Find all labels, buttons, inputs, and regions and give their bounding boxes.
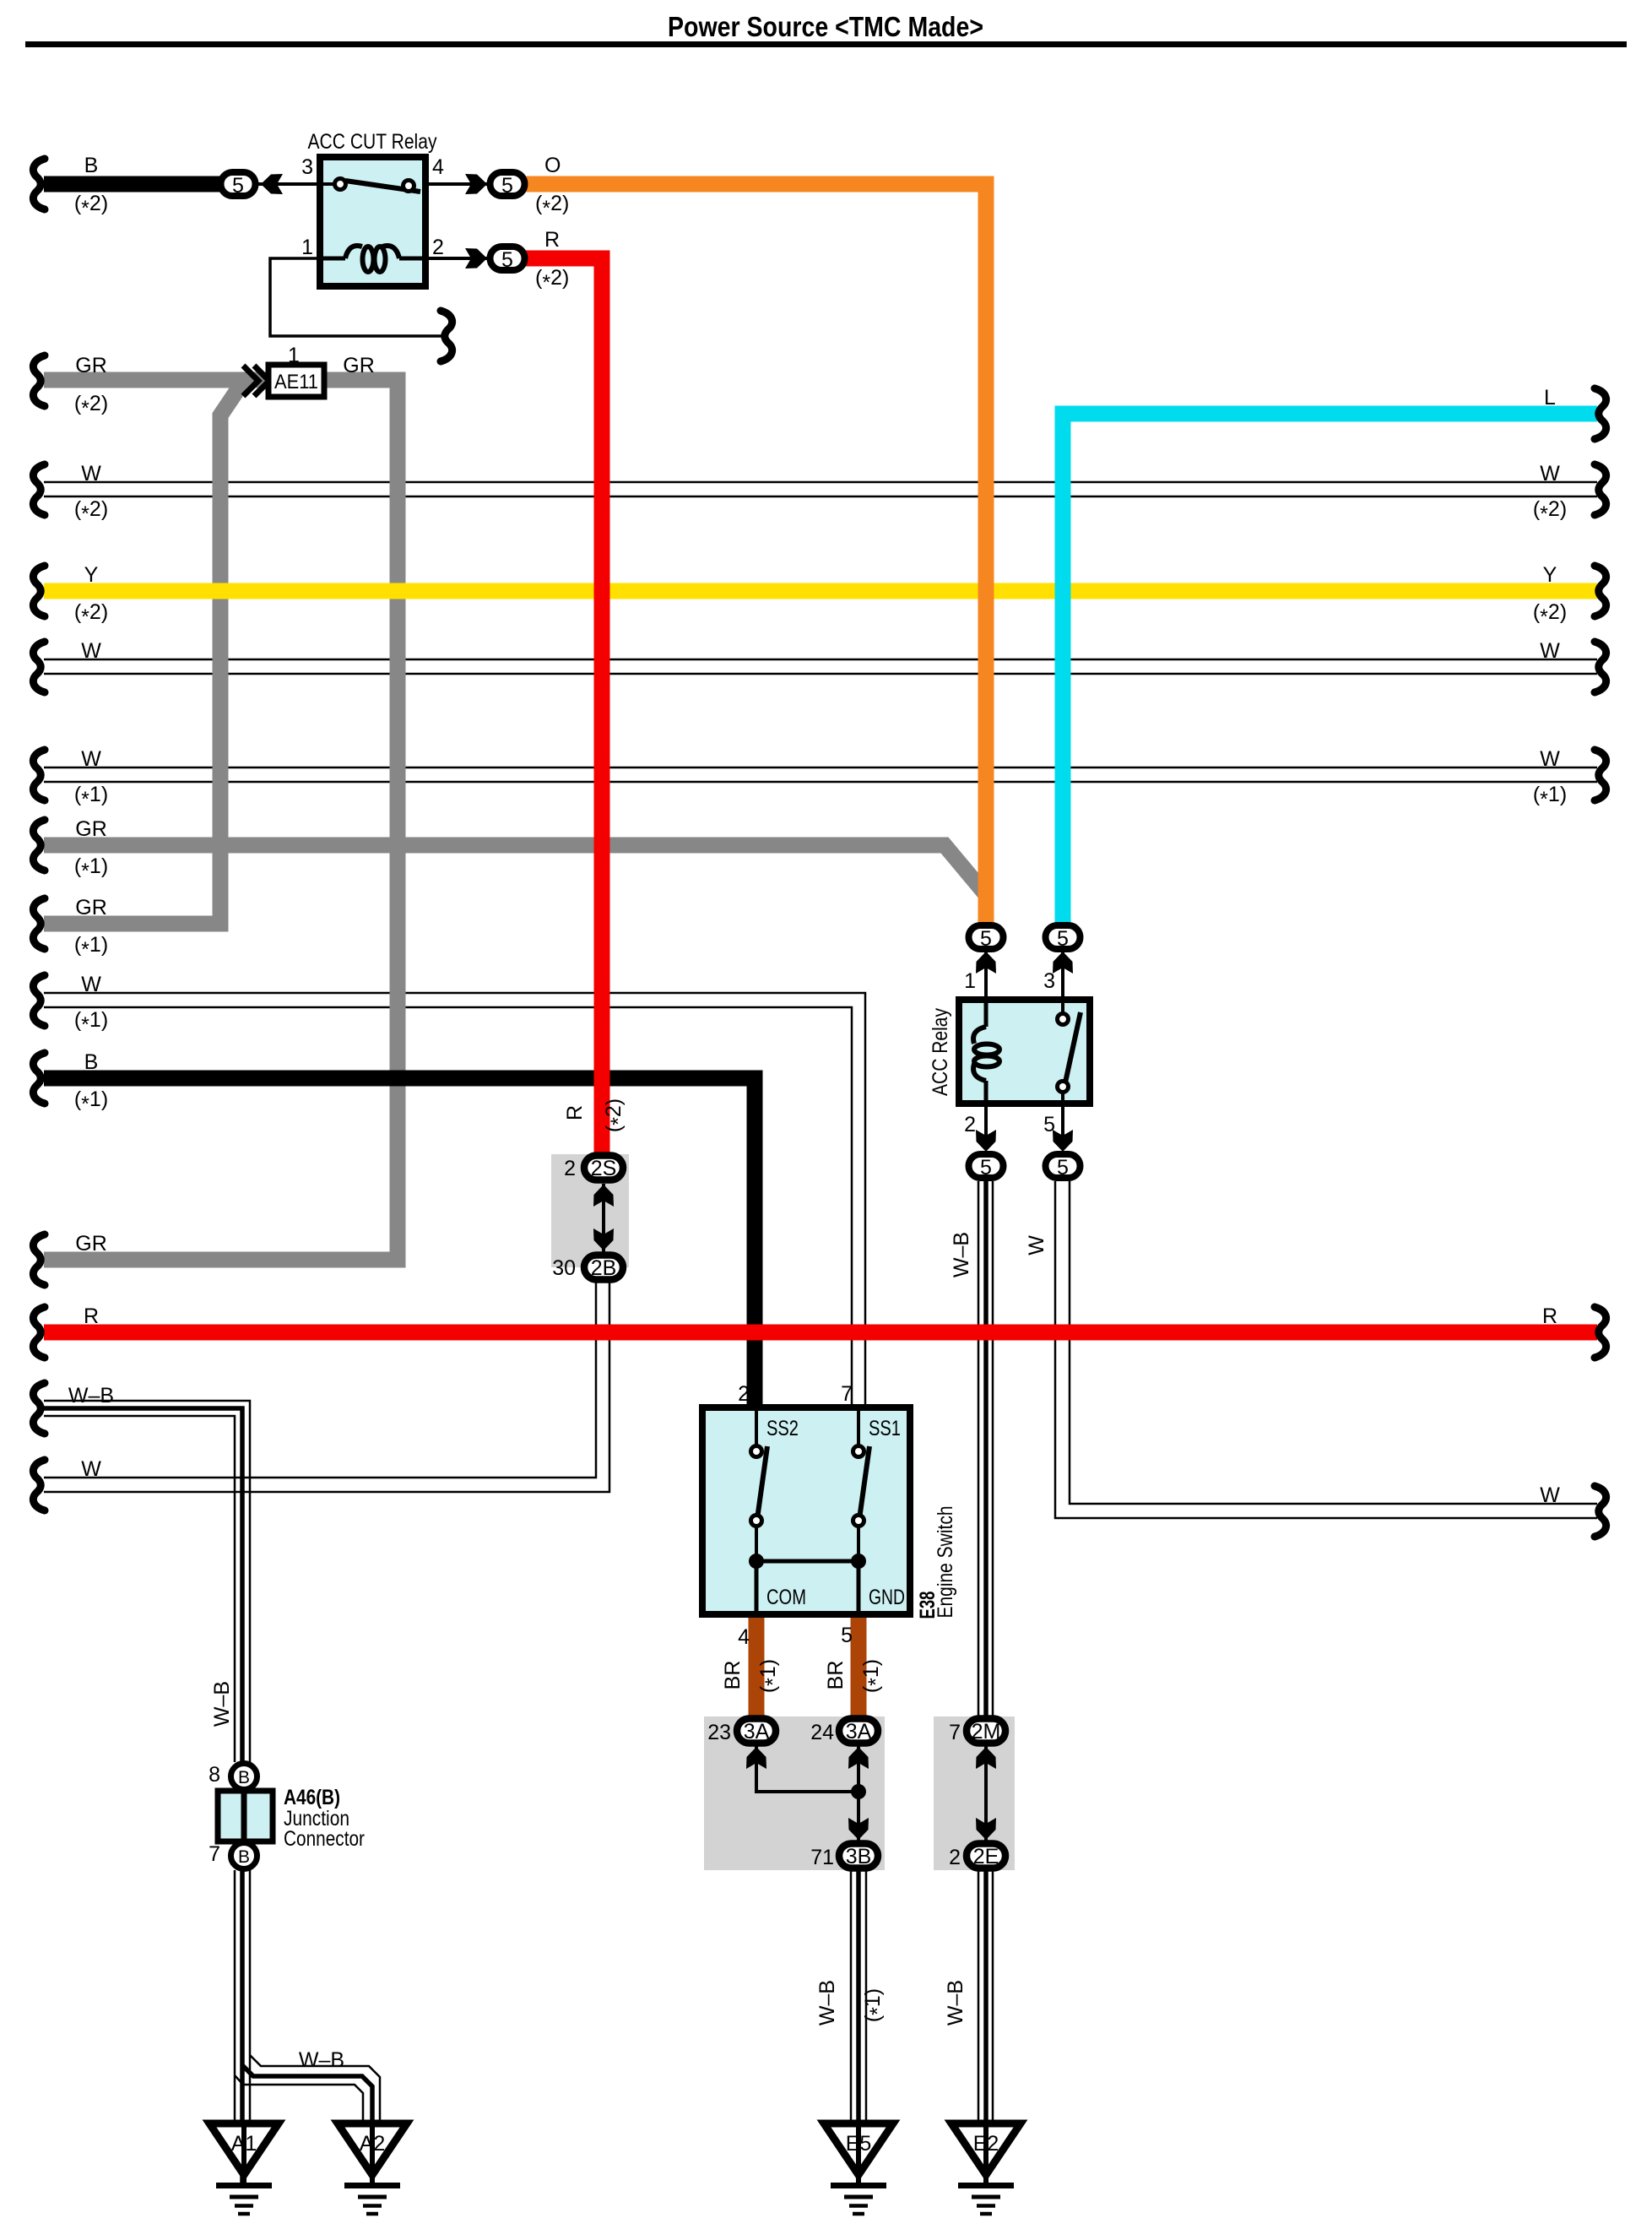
svg-text:W: W bbox=[81, 1457, 101, 1481]
svg-text:4: 4 bbox=[432, 155, 444, 179]
svg-text:L: L bbox=[1544, 386, 1556, 409]
svg-text:B: B bbox=[238, 1847, 250, 1867]
svg-text:5: 5 bbox=[232, 174, 244, 198]
svg-text:W–B: W–B bbox=[299, 2048, 344, 2072]
svg-text:GR: GR bbox=[75, 896, 107, 919]
svg-text:5: 5 bbox=[980, 927, 992, 951]
svg-text:GR: GR bbox=[75, 354, 107, 377]
svg-text:1: 1 bbox=[288, 344, 300, 367]
svg-text:3A: 3A bbox=[846, 1720, 872, 1744]
svg-text:W: W bbox=[1540, 639, 1560, 663]
svg-text:W: W bbox=[1540, 1483, 1560, 1507]
svg-text:W–B: W–B bbox=[815, 1980, 839, 2026]
svg-text:E5: E5 bbox=[846, 2132, 872, 2156]
svg-text:2E: 2E bbox=[973, 1845, 999, 1868]
svg-text:ACC Relay: ACC Relay bbox=[929, 1008, 952, 1096]
svg-text:71: 71 bbox=[810, 1846, 834, 1869]
svg-text:Y: Y bbox=[84, 563, 99, 587]
svg-text:4: 4 bbox=[738, 1625, 750, 1649]
svg-text:E2: E2 bbox=[973, 2132, 999, 2156]
svg-text:COM: COM bbox=[766, 1586, 806, 1609]
svg-text:R: R bbox=[84, 1304, 99, 1328]
svg-text:W: W bbox=[81, 747, 101, 771]
svg-text:2: 2 bbox=[432, 236, 444, 259]
svg-text:2: 2 bbox=[564, 1157, 576, 1180]
svg-text:B: B bbox=[84, 154, 99, 177]
svg-text:W: W bbox=[81, 973, 101, 996]
svg-text:Engine Switch: Engine Switch bbox=[934, 1506, 957, 1619]
svg-text:2: 2 bbox=[949, 1846, 961, 1869]
svg-text:1: 1 bbox=[301, 236, 313, 259]
svg-text:2S: 2S bbox=[591, 1157, 617, 1180]
svg-text:W: W bbox=[81, 462, 101, 485]
svg-text:5: 5 bbox=[1043, 1113, 1055, 1136]
svg-text:3: 3 bbox=[301, 155, 313, 179]
svg-text:3B: 3B bbox=[846, 1845, 872, 1868]
svg-text:5: 5 bbox=[501, 248, 513, 272]
svg-text:Power Source <TMC Made>: Power Source <TMC Made> bbox=[668, 11, 983, 42]
svg-text:3A: 3A bbox=[744, 1720, 770, 1744]
svg-text:8: 8 bbox=[209, 1763, 220, 1787]
svg-text:B: B bbox=[238, 1768, 250, 1787]
svg-text:7: 7 bbox=[841, 1382, 853, 1406]
svg-text:W: W bbox=[1540, 462, 1560, 485]
svg-text:W: W bbox=[81, 639, 101, 663]
svg-text:1: 1 bbox=[964, 969, 976, 993]
svg-text:BR: BR bbox=[721, 1661, 745, 1690]
svg-text:W: W bbox=[1540, 747, 1560, 771]
svg-text:23: 23 bbox=[707, 1721, 731, 1744]
svg-text:3: 3 bbox=[1043, 969, 1055, 993]
svg-text:30: 30 bbox=[552, 1256, 576, 1280]
svg-text:5: 5 bbox=[980, 1156, 992, 1180]
svg-text:ACC CUT Relay: ACC CUT Relay bbox=[308, 130, 437, 154]
svg-text:A1: A1 bbox=[231, 2132, 257, 2156]
svg-text:7: 7 bbox=[949, 1721, 961, 1744]
svg-text:GR: GR bbox=[75, 1232, 107, 1256]
svg-text:R: R bbox=[544, 228, 560, 252]
svg-text:5: 5 bbox=[1057, 1156, 1069, 1180]
svg-text:Connector: Connector bbox=[284, 1827, 365, 1851]
svg-text:A46(B): A46(B) bbox=[284, 1786, 340, 1809]
svg-text:2: 2 bbox=[738, 1382, 750, 1406]
svg-text:R: R bbox=[563, 1105, 587, 1120]
svg-text:W: W bbox=[1025, 1235, 1048, 1256]
svg-text:GR: GR bbox=[343, 354, 375, 377]
svg-text:2: 2 bbox=[964, 1113, 976, 1136]
svg-text:5: 5 bbox=[1057, 927, 1069, 951]
svg-text:B: B bbox=[84, 1050, 99, 1074]
svg-text:A2: A2 bbox=[360, 2132, 386, 2156]
svg-text:BR: BR bbox=[824, 1661, 848, 1690]
svg-text:W–B: W–B bbox=[210, 1681, 234, 1727]
svg-text:AE11: AE11 bbox=[274, 371, 318, 393]
svg-text:SS1: SS1 bbox=[869, 1417, 901, 1440]
svg-text:5: 5 bbox=[501, 174, 513, 198]
svg-text:W–B: W–B bbox=[68, 1384, 114, 1407]
svg-text:2M: 2M bbox=[972, 1720, 1001, 1744]
svg-text:Y: Y bbox=[1543, 563, 1557, 587]
svg-text:W–B: W–B bbox=[944, 1980, 967, 2026]
svg-text:24: 24 bbox=[810, 1721, 834, 1744]
svg-text:SS2: SS2 bbox=[766, 1417, 799, 1440]
svg-text:5: 5 bbox=[841, 1624, 853, 1647]
svg-text:O: O bbox=[544, 154, 561, 177]
svg-text:7: 7 bbox=[209, 1842, 220, 1866]
svg-text:GR: GR bbox=[75, 817, 107, 841]
svg-text:2B: 2B bbox=[591, 1256, 617, 1280]
svg-text:R: R bbox=[1542, 1304, 1557, 1328]
svg-text:W–B: W–B bbox=[950, 1232, 973, 1277]
svg-text:GND: GND bbox=[869, 1586, 905, 1609]
